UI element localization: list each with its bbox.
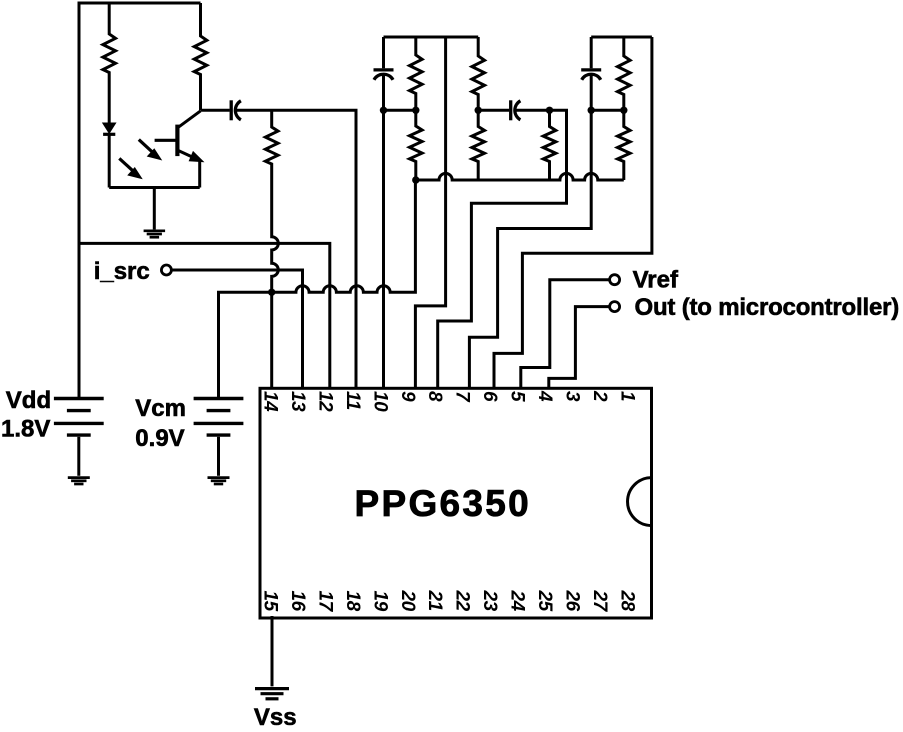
wire i_src to pin 13	[172, 270, 303, 390]
wire Vref to pin 5	[521, 280, 609, 390]
battery V2 Vcm 0.9V	[194, 399, 244, 476]
svg-text:10: 10	[369, 391, 390, 412]
svg-text:9: 9	[397, 391, 418, 402]
light arrows into phototransistor	[119, 140, 159, 177]
IC U1 PPG6350 body	[260, 388, 652, 618]
wire Out to pin 4	[549, 307, 609, 390]
svg-text:26: 26	[562, 590, 583, 612]
svg-text:5: 5	[507, 391, 528, 402]
ground Vss	[255, 689, 289, 699]
capacitor C1 (coupling)	[201, 100, 357, 389]
svg-text:23: 23	[479, 590, 500, 612]
resistor R4 (group1 upper)	[410, 37, 423, 110]
svg-text:13: 13	[287, 391, 308, 412]
svg-text:1.8V: 1.8V	[1, 416, 50, 443]
wire upper bus (hops three verticals)	[416, 173, 624, 180]
svg-text:Vss: Vss	[254, 704, 297, 731]
svg-text:11: 11	[342, 391, 363, 410]
svg-text:15: 15	[259, 591, 280, 612]
wire top rail to pin 9 (steps left)	[415, 37, 445, 390]
node group3 left	[588, 107, 595, 114]
svg-text:21: 21	[424, 590, 445, 611]
wire group1+2 top rail	[384, 36, 479, 39]
wire group3 top rail	[591, 36, 652, 39]
node group3 right	[620, 107, 627, 114]
node group1 left	[380, 107, 387, 114]
svg-text:PPG6350: PPG6350	[355, 483, 532, 524]
resistor R5 (group1 lower)	[410, 110, 423, 180]
wire Vdd rail to pin 12	[79, 243, 330, 389]
svg-text:8: 8	[424, 391, 445, 402]
wire group3 top to pin 6 (staircase)	[494, 37, 652, 390]
node junction pin14/Vcm	[268, 289, 275, 296]
wire junction to pin 14	[270, 292, 273, 389]
wire group3 node row	[591, 109, 624, 112]
IC notch	[628, 478, 652, 526]
transistor Q1 (phototransistor)	[155, 111, 201, 188]
resistor R2 (collector load, right leg of box)	[194, 3, 207, 110]
capacitor C2 (group 1)	[374, 37, 394, 110]
capacitor C4 (group 3)	[581, 37, 601, 110]
svg-text:2: 2	[589, 390, 610, 402]
photodiode D1	[103, 123, 115, 187]
wire group1 node row	[384, 109, 416, 112]
svg-text:Vdd: Vdd	[6, 387, 51, 414]
svg-text:24: 24	[507, 590, 528, 612]
ground (optocoupler common)	[144, 188, 166, 238]
svg-text:17: 17	[314, 591, 335, 613]
resistor R7 (group2 lower left)	[472, 110, 485, 180]
resistor R6 (group2 upper)	[472, 37, 485, 110]
wire group1 cap node to pin 10	[382, 110, 385, 389]
svg-text:22: 22	[452, 590, 473, 612]
node group1 right	[412, 107, 419, 114]
wire Vcm battery to junction	[219, 292, 272, 397]
capacitor C3 (group2, horizontal)	[478, 100, 549, 120]
svg-text:4: 4	[534, 390, 555, 402]
svg-text:i_src: i_src	[94, 258, 150, 285]
node group1 bottom junction	[412, 176, 419, 183]
svg-text:16: 16	[287, 591, 308, 612]
wire pin 15 to Vss ground	[271, 616, 274, 686]
svg-text:Vref: Vref	[633, 267, 679, 294]
svg-text:12: 12	[314, 391, 335, 412]
wire top-left box frame (top rail + left Vdd rail)	[79, 3, 201, 397]
svg-text:19: 19	[369, 591, 390, 612]
svg-text:27: 27	[589, 590, 610, 613]
wire lower bus (junction to group1 bottom, hops pins 13-10)	[272, 180, 416, 292]
svg-text:Out (to microcontroller): Out (to microcontroller)	[635, 294, 900, 321]
node group2 left	[475, 107, 482, 114]
svg-text:1: 1	[617, 391, 638, 401]
terminal Out	[610, 302, 620, 312]
svg-text:14: 14	[259, 391, 280, 412]
resistor R3 (bias to Vcm, hops over two wires)	[265, 110, 278, 292]
ground (Vdd battery)	[68, 478, 90, 484]
wire box bottom (emitter/diode common)	[109, 186, 200, 189]
svg-text:Vcm: Vcm	[135, 395, 186, 422]
svg-text:18: 18	[342, 591, 363, 612]
node group2 right	[546, 107, 553, 114]
svg-text:25: 25	[534, 590, 555, 612]
svg-text:28: 28	[617, 590, 638, 612]
wire group2 right node to pin 8 (staircase)	[438, 110, 567, 389]
svg-text:0.9V: 0.9V	[135, 425, 184, 452]
resistor R10 (group3 lower)	[618, 110, 631, 180]
wire group3 cap node to pin 7 (staircase)	[469, 110, 591, 389]
terminal i_src	[161, 265, 171, 275]
terminal Vref	[610, 275, 620, 285]
resistor R1 (photodiode series, left leg of box)	[103, 3, 116, 123]
resistor R8 (group2 lower right)	[543, 110, 556, 180]
svg-text:20: 20	[397, 590, 418, 612]
battery V1 Vdd 1.8V	[54, 399, 104, 476]
svg-text:3: 3	[562, 391, 583, 402]
ground (Vcm battery)	[208, 478, 230, 484]
svg-text:6: 6	[479, 391, 500, 402]
resistor R9 (group3 upper)	[618, 37, 631, 110]
